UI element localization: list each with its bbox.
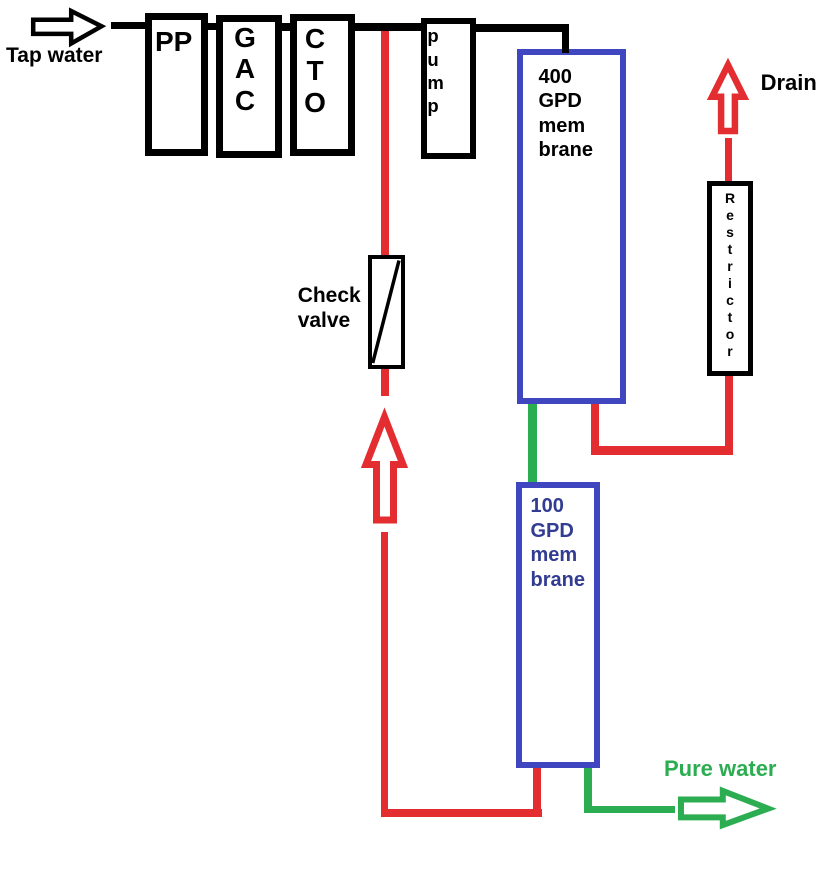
wire: red stub up into 100 GPD membrane bottom [533, 764, 541, 817]
wire: red line pump-tee down to check valve [381, 28, 389, 255]
label Tap water [6, 45, 102, 66]
wire: red horizontal to restrictor column [591, 446, 733, 455]
red flow up-arrow below check valve [366, 417, 403, 520]
check valve flap diagonal [373, 261, 399, 364]
tap water inlet arrow [33, 11, 101, 44]
check valve box [368, 255, 406, 369]
wire: black pump to corner [474, 24, 569, 32]
wire: green line 400 GPD to 100 GPD membrane [528, 400, 537, 482]
drain up-arrow [712, 65, 744, 131]
wire: red vertical up to restrictor bottom [725, 372, 733, 454]
400 GPD membrane box [517, 49, 626, 404]
wire: red stub below check valve [381, 367, 389, 396]
label 400 GPD membrane [539, 65, 593, 163]
GAC filter box [216, 15, 283, 159]
label CTO (vertical) [288, 23, 342, 118]
wire: red bottom horizontal run [381, 809, 542, 817]
wire: red drain line down from 400 GPD membrane [591, 400, 599, 454]
wire: black corner drop into 400 GPD membrane [562, 24, 569, 53]
label GAC (vertical) [218, 22, 272, 117]
wire: red segment restrictor top to drain arrow [725, 138, 732, 182]
wire: black GAC to CTO [280, 23, 292, 31]
label Check valve [298, 283, 361, 334]
label Restrictor (vertical letters) [707, 190, 753, 360]
wire: green horizontal to pure-water arrow [584, 806, 675, 813]
label pump (vertical) [427, 24, 443, 117]
restrictor box [707, 181, 754, 376]
100 GPD membrane box [516, 482, 601, 768]
label Drain [761, 72, 817, 94]
wire: black PP to GAC [204, 23, 219, 31]
pump box [421, 18, 476, 160]
label PP [155, 28, 192, 56]
pure water outlet arrow [681, 791, 768, 825]
label Pure water [664, 758, 777, 780]
PP filter box [145, 13, 208, 156]
label 100 GPD membrane [531, 494, 585, 592]
CTO filter box [290, 14, 355, 157]
wire: black CTO to pump [353, 23, 423, 31]
wire: black feed from tap arrow to PP [111, 22, 147, 30]
wire: red vertical below up-arrow to bottom [381, 532, 389, 817]
wire: green vertical from 100 GPD membrane bottom [584, 764, 592, 813]
